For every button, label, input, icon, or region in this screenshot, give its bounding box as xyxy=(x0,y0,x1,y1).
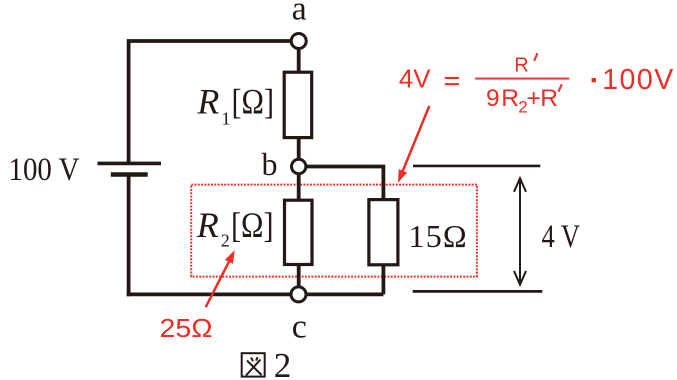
svg-text:[Ω]: [Ω] xyxy=(232,82,275,122)
svg-text:R: R xyxy=(501,85,519,112)
svg-text:1: 1 xyxy=(222,109,231,129)
svg-text:4 V: 4 V xyxy=(542,219,581,255)
svg-text:R: R xyxy=(514,54,528,76)
svg-text:100V: 100V xyxy=(602,64,675,96)
svg-text:a: a xyxy=(292,0,307,27)
svg-text:R: R xyxy=(540,85,558,112)
svg-text:c: c xyxy=(292,309,307,346)
svg-text:R: R xyxy=(196,82,219,122)
svg-text:4V: 4V xyxy=(399,66,431,94)
svg-text:15Ω: 15Ω xyxy=(409,218,468,254)
svg-text:2: 2 xyxy=(274,346,292,380)
svg-text:b: b xyxy=(262,146,278,182)
svg-text:+: + xyxy=(527,85,541,112)
svg-text:9: 9 xyxy=(486,85,500,112)
svg-text:R: R xyxy=(196,205,219,245)
svg-text:100 V: 100 V xyxy=(9,152,80,188)
svg-text:25Ω: 25Ω xyxy=(160,315,213,343)
svg-text:[Ω]: [Ω] xyxy=(231,205,274,245)
svg-text:2: 2 xyxy=(221,231,230,251)
